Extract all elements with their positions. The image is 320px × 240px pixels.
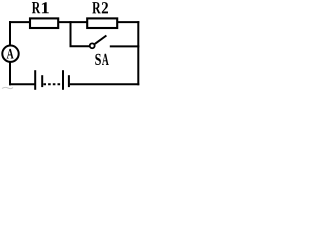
ammeter letter A (7, 49, 14, 59)
ammeter A (2, 46, 18, 62)
battery dashed link (more cells) (43, 83, 62, 85)
battery cell 2 long plate (62, 70, 64, 90)
resistor R2 (87, 18, 117, 28)
battery cell 1 long plate (34, 70, 36, 90)
wire left vertical (9, 21, 11, 85)
label SA letter S (95, 54, 101, 65)
wire junction stub down from node between R1 and R2 (71, 21, 90, 46)
wire switch fixed contact to right (110, 45, 140, 47)
battery cell 1 short plate (41, 75, 43, 87)
faint watermark (2, 87, 13, 88)
wire bottom left segment (9, 83, 35, 85)
wire bottom right segment (70, 83, 140, 85)
label R1 letter R (32, 2, 40, 13)
switch SA pivot circle (90, 43, 95, 48)
wire top horizontal (9, 21, 139, 23)
label R2 digit 2 (102, 2, 108, 13)
resistor R1 (30, 18, 58, 28)
switch SA blade (95, 36, 107, 44)
battery cell 2 short plate (68, 75, 70, 87)
label R1 digit 1 (42, 2, 49, 13)
wire right vertical (137, 21, 139, 85)
label R2 letter R (92, 2, 100, 13)
label SA letter A (102, 54, 109, 65)
